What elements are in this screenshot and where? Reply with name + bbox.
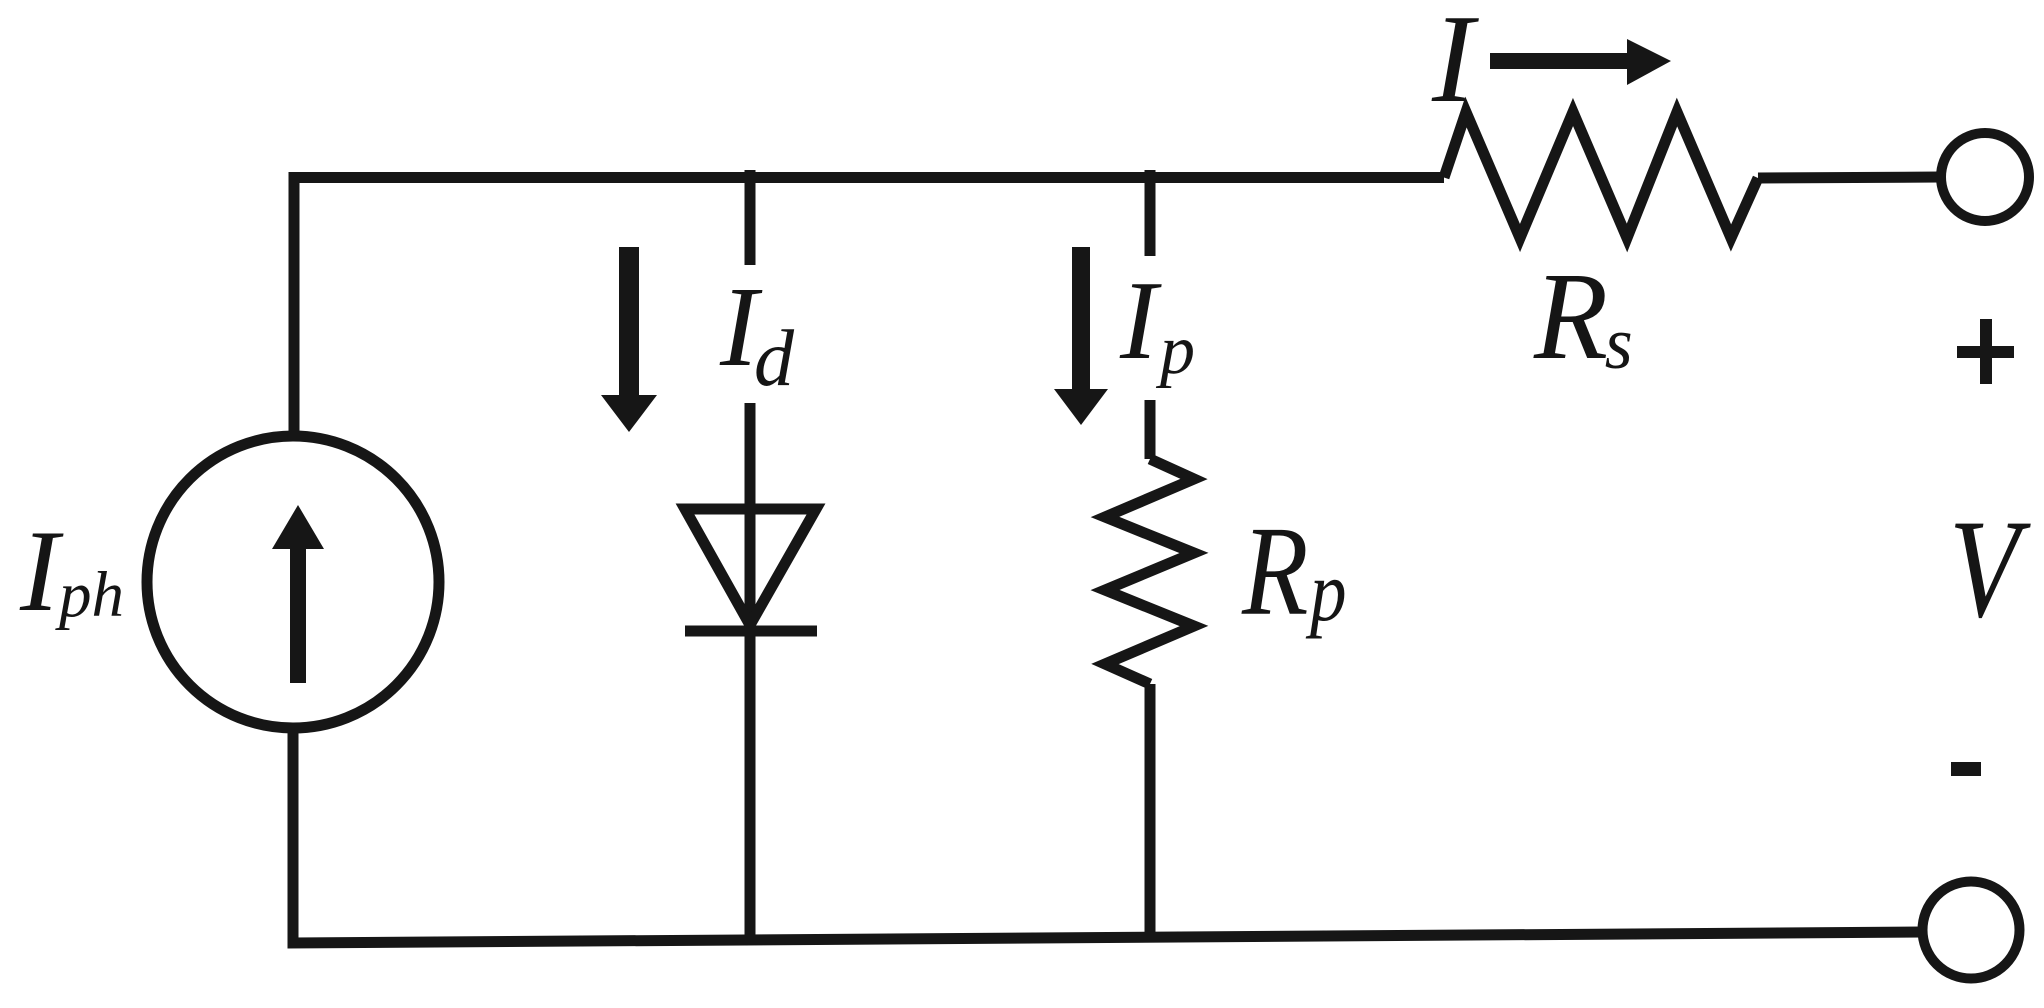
current arrow Ip (down) [1054, 247, 1108, 425]
svg-text:s: s [1605, 302, 1633, 384]
svg-text:V: V [1949, 490, 2031, 646]
label Rs [1533, 246, 1633, 385]
svg-text:I: I [19, 507, 64, 636]
svg-text:p: p [1155, 312, 1195, 389]
diode D1 triangle [685, 509, 816, 625]
terminal T2 bottom-right circle [1923, 882, 2020, 979]
wire diode branch from below Id label through diode to bottom bus [745, 403, 756, 938]
wire right lead of Rs to + terminal [1758, 177, 1941, 178]
resistor Rs zigzag [1444, 112, 1758, 238]
svg-text:I: I [1119, 259, 1162, 383]
plus sign of output [1957, 319, 2014, 384]
svg-text:R: R [1241, 500, 1308, 642]
svg-text:R: R [1533, 246, 1608, 385]
resistor Rp zigzag [1105, 459, 1194, 684]
terminal T1 top-right circle [1941, 133, 2029, 221]
label V [1949, 490, 2031, 646]
wire diode branch upper stub [745, 170, 756, 265]
wire left vertical below current source and bottom bus [293, 727, 1923, 943]
label Rp [1241, 500, 1346, 642]
wire top bus from left corner to Rs [294, 178, 1444, 441]
diode D1 cathode bar [685, 626, 817, 637]
wire shunt branch from below Ip label to resistor Rp [1145, 400, 1156, 459]
svg-text:ph: ph [55, 559, 124, 631]
svg-text:I: I [1431, 0, 1479, 129]
svg-text:p: p [1305, 545, 1346, 640]
current arrow Id (down) [601, 247, 657, 432]
svg-text:d: d [754, 315, 795, 403]
wire shunt branch lower segment to bottom bus [1145, 684, 1156, 938]
current source U1 circle [147, 436, 439, 728]
current arrow I (right) [1490, 39, 1671, 85]
minus sign of output [1951, 762, 1981, 776]
wire shunt branch upper stub [1145, 170, 1156, 256]
arrow of current source (up) [272, 505, 324, 683]
